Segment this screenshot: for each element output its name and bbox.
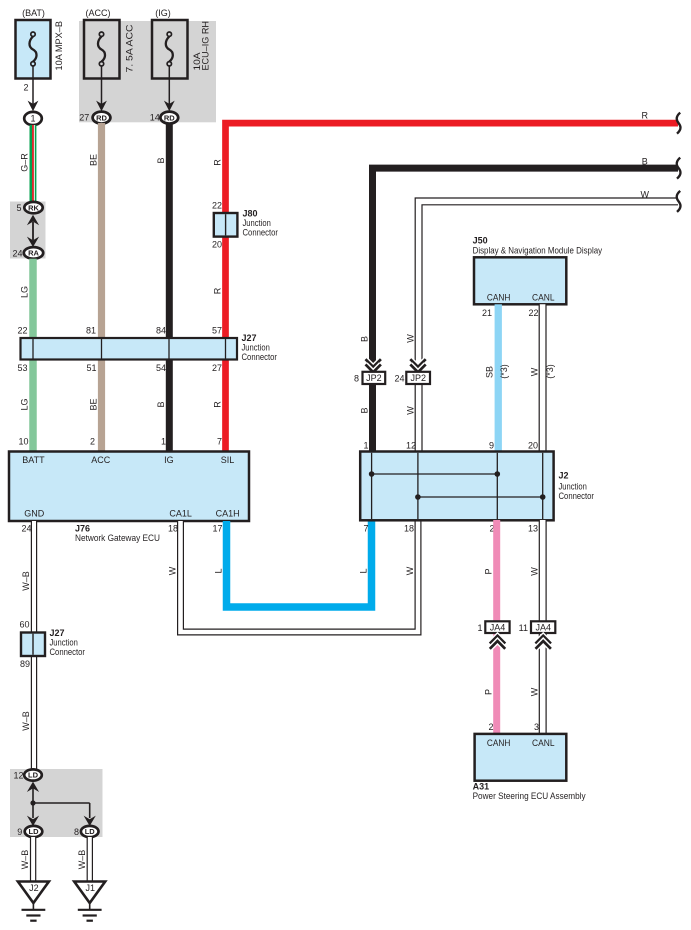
pin labels above J76 (10 2 1 7) — [18, 437, 222, 447]
svg-text:7. 5A ACC: 7. 5A ACC — [124, 24, 134, 73]
gray background RK/RA connector group — [10, 202, 46, 259]
svg-text:R: R — [642, 110, 649, 120]
svg-text:17: 17 — [212, 524, 222, 534]
wire W (white) J2 pin 13 to A31 CANL — [539, 520, 547, 734]
svg-text:IG: IG — [164, 455, 174, 465]
connector arrow into LD9 — [27, 803, 39, 826]
shield chevrons below JA4 (P) — [490, 636, 505, 649]
svg-text:J2: J2 — [29, 883, 39, 893]
svg-text:Connector: Connector — [559, 491, 595, 501]
svg-text:24: 24 — [21, 524, 31, 534]
svg-text:W: W — [641, 190, 650, 200]
ground symbol J2 — [22, 901, 46, 921]
wire lead from fuse F3 with arrow — [164, 66, 175, 111]
svg-text:13: 13 — [528, 524, 538, 534]
svg-text:LG: LG — [20, 286, 30, 298]
wire break curl (W) — [677, 191, 681, 212]
ground symbol J1 — [78, 901, 102, 921]
svg-text:3: 3 — [534, 722, 539, 732]
svg-text:Connector: Connector — [50, 647, 86, 657]
svg-text:W: W — [529, 367, 539, 376]
svg-text:G–R: G–R — [20, 153, 30, 172]
fuse F2 7.5A ACC box — [84, 20, 120, 79]
svg-text:Network Gateway ECU: Network Gateway ECU — [75, 533, 160, 543]
shield chevrons below JA4 (W) — [536, 636, 551, 649]
svg-text:BE: BE — [88, 398, 98, 410]
wire lead from fuse F2 with arrow — [96, 66, 107, 111]
connector oval RD (ACC) — [93, 112, 111, 124]
svg-text:B: B — [359, 407, 369, 413]
svg-text:R: R — [213, 287, 223, 294]
connector oval RK — [24, 202, 42, 213]
svg-text:(BAT): (BAT) — [22, 8, 45, 18]
svg-text:LG: LG — [20, 398, 30, 410]
svg-text:JA4: JA4 — [535, 622, 551, 632]
label J2 Junction Connector — [559, 471, 595, 502]
label J27 Junction Connector (lower) — [50, 628, 86, 657]
label A31 Power Steering ECU Assembly — [473, 782, 586, 801]
svg-text:9: 9 — [17, 827, 22, 837]
connector oval LD (12) — [24, 769, 42, 780]
svg-text:81: 81 — [86, 326, 96, 336]
svg-text:ACC: ACC — [91, 455, 111, 465]
svg-text:(*3): (*3) — [499, 364, 509, 379]
svg-text:W: W — [405, 566, 415, 575]
svg-text:W–B: W–B — [20, 850, 30, 870]
svg-text:Connector: Connector — [243, 228, 279, 238]
pin labels below J27 (53 51 54 27) — [17, 363, 222, 373]
wire LG (light green) from RA to J76 — [29, 259, 37, 452]
connector oval RD (IG) — [160, 112, 178, 124]
svg-text:W: W — [406, 334, 416, 343]
svg-text:1: 1 — [363, 441, 368, 451]
svg-text:24: 24 — [12, 248, 22, 258]
svg-text:ECU–IG RH: ECU–IG RH — [200, 21, 210, 71]
svg-text:W–B: W–B — [77, 850, 87, 870]
ground triangle J1 — [74, 882, 105, 904]
svg-text:2: 2 — [488, 722, 493, 732]
pin labels above J27 (22 81 84 57) — [17, 326, 222, 336]
wire break curl (B) — [677, 158, 681, 179]
svg-text:Power Steering ECU Assembly: Power Steering ECU Assembly — [473, 791, 586, 801]
wire W-B to ground J1 — [87, 837, 93, 882]
wire W-B to ground J2 — [30, 837, 36, 882]
label J76 Network Gateway ECU — [75, 524, 160, 544]
svg-text:B: B — [156, 157, 166, 163]
label J80 Junction Connector — [243, 209, 279, 238]
svg-text:J80: J80 — [243, 209, 258, 219]
connector oval LD (8) — [81, 826, 99, 837]
svg-text:9: 9 — [489, 441, 494, 451]
svg-text:21: 21 — [482, 308, 492, 318]
svg-text:CANL: CANL — [532, 292, 555, 302]
shielded connector JA4 (P) — [485, 621, 509, 633]
wire SB from J50 CANH to J2 pin 9 — [495, 304, 502, 452]
svg-text:51: 51 — [86, 363, 96, 373]
svg-text:CANH: CANH — [487, 738, 511, 748]
svg-text:J1: J1 — [85, 883, 95, 893]
label J27 Junction Connector (upper) — [242, 333, 278, 362]
svg-text:14: 14 — [150, 113, 160, 123]
wire L (blue) CA1H to J2 pin 7 — [227, 520, 372, 607]
svg-text:W: W — [530, 567, 540, 576]
svg-text:22: 22 — [17, 326, 27, 336]
svg-text:JP2: JP2 — [410, 373, 426, 383]
svg-text:W: W — [530, 687, 540, 696]
svg-text:2: 2 — [90, 437, 95, 447]
svg-text:(ACC): (ACC) — [86, 8, 111, 18]
svg-text:CA1L: CA1L — [169, 509, 192, 519]
module J50 box — [474, 257, 566, 304]
svg-text:JA4: JA4 — [490, 622, 506, 632]
svg-text:Display & Navigation Module Di: Display & Navigation Module Display — [473, 245, 603, 255]
wire W-B from GND — [31, 521, 37, 771]
shielded connector JP2 (B) — [363, 372, 386, 384]
svg-text:R: R — [213, 401, 223, 408]
svg-text:12: 12 — [406, 441, 416, 451]
svg-text:P: P — [484, 689, 494, 695]
svg-text:J27: J27 — [50, 628, 65, 638]
svg-text:7: 7 — [363, 524, 368, 534]
svg-text:27: 27 — [79, 113, 89, 123]
svg-text:(IG): (IG) — [155, 8, 171, 18]
svg-text:J27: J27 — [242, 333, 257, 343]
svg-text:B: B — [156, 401, 166, 407]
svg-text:27: 27 — [212, 363, 222, 373]
wire W (white) CA1L to J2 pin 18 — [181, 520, 419, 632]
svg-text:20: 20 — [528, 441, 538, 451]
svg-text:BE: BE — [88, 154, 98, 166]
junction connector J2 box — [360, 452, 553, 521]
label J50 Display & Navigation Module Display — [473, 236, 603, 256]
svg-text:12: 12 — [13, 771, 23, 781]
svg-text:P: P — [484, 568, 494, 574]
svg-text:CANH: CANH — [487, 292, 511, 302]
svg-text:LD: LD — [29, 827, 40, 836]
svg-text:1: 1 — [477, 623, 482, 633]
junction connector J80 — [214, 213, 238, 237]
shield chevrons above JP2 (W) — [410, 359, 425, 372]
svg-text:LD: LD — [85, 827, 96, 836]
svg-text:J2: J2 — [559, 471, 569, 481]
svg-text:B: B — [359, 336, 369, 342]
svg-text:SIL: SIL — [221, 455, 235, 465]
wire break curl (R) — [677, 113, 681, 134]
wire R (red) from right edge down to J76 SIL — [226, 123, 679, 451]
svg-text:B: B — [642, 157, 648, 167]
connector oval RA — [24, 247, 43, 259]
svg-text:60: 60 — [19, 620, 29, 630]
svg-text:W: W — [168, 566, 178, 575]
connector arrow into LD8 — [84, 816, 96, 826]
pin labels below J2 (7 18 2 13) — [363, 524, 538, 534]
wire labels LG BE B R (below J27) — [20, 398, 223, 410]
connector mating arrows RK-RA — [27, 215, 39, 247]
svg-text:J76: J76 — [75, 524, 90, 534]
ground triangle J2 — [18, 882, 49, 904]
svg-text:RD: RD — [164, 113, 175, 122]
svg-text:2: 2 — [23, 83, 28, 93]
svg-text:W–B: W–B — [21, 571, 31, 591]
svg-text:JP2: JP2 — [366, 373, 382, 383]
svg-text:LD: LD — [28, 771, 39, 780]
svg-text:J50: J50 — [473, 236, 488, 246]
svg-text:Connector: Connector — [242, 352, 278, 362]
svg-text:22: 22 — [212, 201, 222, 211]
shield chevrons above JP2 (B) — [366, 359, 381, 372]
svg-text:10: 10 — [18, 437, 28, 447]
svg-text:L: L — [213, 568, 223, 573]
svg-text:18: 18 — [168, 524, 178, 534]
svg-text:CANL: CANL — [532, 738, 555, 748]
svg-text:RD: RD — [96, 113, 107, 122]
svg-text:RK: RK — [28, 203, 39, 212]
svg-text:20: 20 — [212, 240, 222, 250]
svg-text:R: R — [213, 159, 223, 166]
wire BE (beige) to J76 — [98, 123, 105, 452]
svg-text:89: 89 — [20, 659, 30, 669]
wire P (pink) J2 pin 2 to A31 CANH — [493, 520, 500, 734]
wire B (black) from right edge to J2 pin 1 — [373, 168, 679, 452]
svg-text:18: 18 — [404, 524, 414, 534]
svg-text:RA: RA — [28, 249, 39, 258]
gray background LD connector group — [10, 769, 103, 837]
wire W (white) from right edge to J2 pin 12 — [419, 201, 678, 452]
fuse F3 10A ECU-IG RH box — [152, 20, 188, 79]
wire branch to LD8 — [33, 803, 90, 818]
svg-text:11: 11 — [519, 623, 528, 633]
junction node dot — [30, 800, 35, 805]
svg-text:53: 53 — [17, 363, 27, 373]
svg-text:L: L — [358, 568, 368, 573]
ECU A31 box — [475, 734, 567, 781]
gray relay block background (ACC/IG fuses) — [79, 21, 216, 122]
svg-text:5: 5 — [16, 203, 21, 213]
svg-text:(*3): (*3) — [545, 364, 555, 379]
wire G-R (green/red) — [30, 125, 37, 203]
svg-text:57: 57 — [212, 326, 222, 336]
svg-text:84: 84 — [156, 326, 166, 336]
svg-text:24: 24 — [394, 374, 404, 384]
connector arrow below LD12 — [27, 782, 39, 803]
junction connector J27 (upper) — [21, 338, 238, 360]
wire B (black) to J76 — [166, 123, 173, 452]
svg-text:1: 1 — [161, 437, 166, 447]
junction connector J27 (lower) — [21, 633, 45, 657]
fuse F3 value label 10A ECU-IG RH — [192, 21, 210, 71]
svg-text:Junction: Junction — [559, 482, 587, 492]
connector oval LD (9) — [25, 826, 43, 837]
svg-text:BATT: BATT — [22, 455, 45, 465]
connector oval 1 — [24, 112, 42, 125]
svg-text:SB: SB — [484, 366, 494, 378]
shielded connector JA4 (W) — [531, 621, 555, 633]
svg-text:W: W — [406, 406, 416, 415]
wire lead from fuse F1 with arrow — [28, 66, 39, 111]
svg-text:W–B: W–B — [21, 711, 31, 731]
svg-text:8: 8 — [74, 827, 79, 837]
svg-text:CA1H: CA1H — [216, 509, 240, 519]
svg-text:GND: GND — [24, 509, 45, 519]
svg-text:8: 8 — [354, 374, 359, 384]
wire W from J50 CANL to J2 pin 20 — [539, 304, 547, 452]
svg-text:10A MPX–B: 10A MPX–B — [54, 21, 64, 71]
fuse F1 10A MPX-B box — [16, 20, 51, 79]
svg-text:7: 7 — [217, 437, 222, 447]
svg-text:1: 1 — [30, 114, 35, 124]
svg-text:22: 22 — [528, 308, 538, 318]
ECU J76 box — [9, 452, 249, 522]
shielded connector JP2 (W) — [406, 372, 430, 384]
svg-text:54: 54 — [156, 363, 166, 373]
